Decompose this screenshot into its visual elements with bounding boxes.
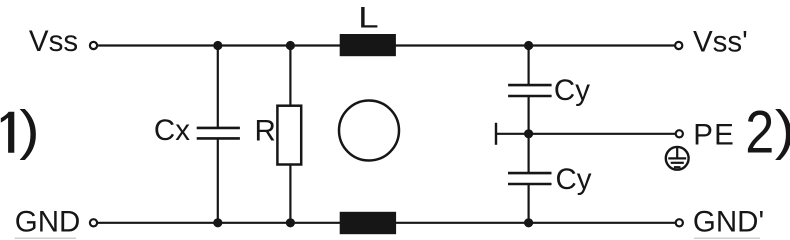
- capacitor Cy (top): [508, 85, 551, 96]
- junction bottom rail at Cx: [213, 218, 222, 227]
- protective earth symbol: [666, 147, 689, 170]
- note 2): [745, 98, 790, 165]
- svg-text:Vss: Vss: [29, 25, 78, 58]
- terminal PE: [676, 130, 683, 137]
- wire R branch lower: [289, 162, 291, 223]
- wire Cx branch upper: [217, 46, 219, 129]
- svg-text:Cy: Cy: [556, 163, 592, 196]
- wire R branch upper: [289, 46, 291, 109]
- junction top rail at Cy: [524, 41, 533, 50]
- svg-text:): ): [19, 99, 39, 160]
- terminal Vss: [90, 42, 97, 49]
- svg-text:2: 2: [745, 98, 774, 165]
- inductor bottom winding (filled rectangle): [340, 212, 396, 234]
- wire PE row: [496, 133, 677, 135]
- resistor R: [277, 106, 301, 165]
- wire Cx branch lower: [217, 138, 219, 223]
- core circle of choke: [339, 101, 399, 161]
- terminal GND': [676, 219, 683, 226]
- wire Cy branch middle: [527, 96, 529, 173]
- note 1): [1, 99, 40, 160]
- wire top rail Vss to Vss': [95, 44, 677, 46]
- svg-text:): ): [775, 99, 790, 160]
- terminal GND: [90, 219, 97, 226]
- junction bottom rail at Cy: [524, 218, 533, 227]
- wire bottom rail GND to GND': [95, 222, 677, 224]
- svg-text:GND': GND': [693, 206, 764, 239]
- inductor L (top winding, filled rectangle): [340, 34, 396, 56]
- wire stub tick at PE row left end: [495, 123, 497, 145]
- capacitor Cx: [197, 128, 240, 138]
- junction PE row at Cy branch: [524, 129, 533, 138]
- crop artifact bottom right: [694, 238, 760, 240]
- crop artifact bottom left: [15, 238, 77, 240]
- svg-text:Vss': Vss': [693, 25, 748, 58]
- terminal Vss': [675, 42, 682, 49]
- wire Cy branch lower: [527, 184, 529, 223]
- junction top rail at Cx: [213, 41, 222, 50]
- wire Cy branch upper: [527, 46, 529, 86]
- svg-text:Cy: Cy: [554, 74, 590, 107]
- svg-text:PE: PE: [693, 119, 735, 152]
- junction top rail at R: [286, 41, 295, 50]
- svg-text:R: R: [255, 114, 276, 147]
- svg-text:Cx: Cx: [154, 114, 190, 147]
- svg-text:GND: GND: [15, 206, 81, 239]
- junction bottom rail at R: [286, 218, 295, 227]
- svg-text:L: L: [358, 2, 378, 35]
- capacitor Cy (bottom): [508, 173, 552, 184]
